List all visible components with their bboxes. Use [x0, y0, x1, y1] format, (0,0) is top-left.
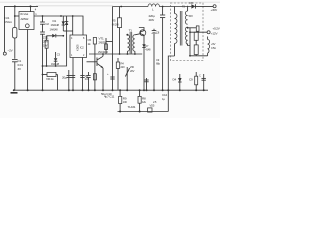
- diode D3 on branch wire: [47, 35, 53, 37]
- svg-text:D4: D4: [173, 78, 177, 82]
- svg-text:R8: R8: [142, 97, 146, 101]
- svg-text:T1: T1: [129, 28, 133, 32]
- svg-text:50V: 50V: [189, 14, 194, 18]
- capacitor C2: [42, 16, 44, 22]
- svg-text:TL431: TL431: [128, 105, 136, 109]
- capacitor C7: [152, 30, 157, 32]
- svg-text:+30V: +30V: [211, 8, 219, 12]
- node junctions on ground bus: [13, 89, 15, 91]
- svg-text:2SC3150: 2SC3150: [98, 50, 109, 54]
- svg-text:C2: C2: [45, 22, 49, 26]
- svg-text:VR 2k: VR 2k: [46, 77, 54, 81]
- wire +12V row: [190, 31, 207, 33]
- AC input terminal: [3, 52, 6, 55]
- feedback sub wire: [118, 111, 169, 113]
- svg-text:D1: D1: [53, 19, 57, 23]
- resistor R5: [119, 7, 121, 18]
- wire drive: [105, 38, 107, 54]
- potentiometer VR1: [47, 73, 56, 77]
- resistor R9: [119, 96, 122, 103]
- svg-text:86 2W: 86 2W: [112, 23, 119, 27]
- zener ZD3: [126, 67, 128, 90]
- svg-text:C9: C9: [189, 78, 193, 82]
- svg-text:VD5: VD5: [150, 104, 155, 108]
- resistor R2: [46, 36, 48, 40]
- regulator VD5: [148, 108, 152, 112]
- capacitor C9: [195, 76, 198, 85]
- capacitor C13: [146, 78, 148, 90]
- capacitor C14: [203, 74, 205, 90]
- wire fuse branch: [14, 6, 16, 27]
- wire to +30V: [195, 5, 213, 7]
- wire second rail: [34, 16, 83, 35]
- transistor Q2: [135, 34, 140, 35]
- svg-text:+12V: +12V: [211, 32, 219, 36]
- svg-text:+5V: +5V: [211, 42, 216, 46]
- svg-text:R9: R9: [123, 97, 127, 101]
- inductor L2 coil: [208, 40, 210, 54]
- capacitor C6: [80, 75, 84, 77]
- svg-text:400V: 400V: [149, 18, 155, 22]
- wire IC1 left pin: [15, 15, 19, 17]
- svg-text:0.5A: 0.5A: [211, 46, 216, 50]
- wire mid horizontal: [89, 53, 142, 55]
- svg-text:4µ7 C11: 4µ7 C11: [104, 95, 115, 99]
- wire IC1 top pin: [30, 6, 32, 11]
- diode D4 below bus region: [179, 74, 181, 90]
- wire mid-left: [43, 31, 67, 66]
- ground bus: [14, 89, 208, 91]
- capacitor C3: [42, 24, 44, 32]
- svg-text:R5: R5: [112, 19, 116, 23]
- inductor L1: [148, 4, 159, 7]
- svg-text:Vin Vout: Vin Vout: [20, 12, 28, 16]
- svg-text:20V: 20V: [130, 69, 135, 73]
- wire right rail: [189, 28, 191, 56]
- capacitor C6 bulk: [162, 7, 164, 15]
- capacitor C14: [86, 75, 90, 77]
- resistor R10: [194, 32, 198, 40]
- svg-text:+5.2V: +5.2V: [213, 27, 221, 31]
- svg-text:AW912: AW912: [21, 17, 29, 21]
- wire IC1 bottom pin to bus: [27, 30, 29, 91]
- wire bottom right row: [190, 55, 208, 57]
- resistor R4: [116, 62, 119, 68]
- op-amp U1 box: [19, 12, 34, 30]
- wire top-left AC bus: [5, 6, 39, 52]
- wire secondary bottom to rail: [188, 44, 190, 46]
- dashed shield box: [170, 3, 203, 61]
- resistor R6: [93, 74, 96, 80]
- wire feedback drop: [168, 56, 174, 112]
- svg-text:1N4148: 1N4148: [51, 23, 60, 27]
- wire IC2 top pins: [72, 16, 74, 35]
- svg-text:1N4148: 1N4148: [50, 28, 59, 32]
- wire to output diode: [159, 6, 191, 8]
- diode D8: [191, 4, 195, 8]
- svg-text:C12: C12: [162, 93, 168, 97]
- wire cap to bus: [14, 62, 16, 90]
- faint scan line: [0, 1, 220, 3]
- zener D2: [66, 16, 68, 31]
- svg-text:20µ: 20µ: [62, 76, 67, 80]
- svg-text:4148: 4148: [145, 48, 151, 52]
- svg-text:KD05: KD05: [76, 44, 80, 51]
- capacitor C1: [12, 59, 18, 61]
- ground: [11, 92, 18, 94]
- wire center tap out: [188, 27, 197, 29]
- svg-text:100: 100: [123, 100, 128, 104]
- capacitor C4: [110, 76, 114, 78]
- resistor R8: [138, 96, 141, 103]
- svg-text:0.5Am: 0.5Am: [4, 20, 13, 24]
- transistor Q1: [87, 61, 98, 63]
- node junction: [14, 5, 16, 7]
- diode D7: [142, 44, 145, 47]
- op-amp U2 box: [70, 35, 87, 58]
- capacitor on IC2 pin: [71, 75, 75, 77]
- wire top right rail: [113, 6, 149, 8]
- resistor R11: [194, 45, 198, 55]
- wire IC2 bottom pins to bus: [72, 58, 74, 91]
- wire below fuse: [14, 38, 16, 59]
- svg-text:VT1: VT1: [99, 37, 105, 41]
- fuse FU1: [13, 28, 17, 39]
- svg-text:220µ: 220µ: [149, 14, 156, 18]
- wire main HV drop: [112, 7, 114, 91]
